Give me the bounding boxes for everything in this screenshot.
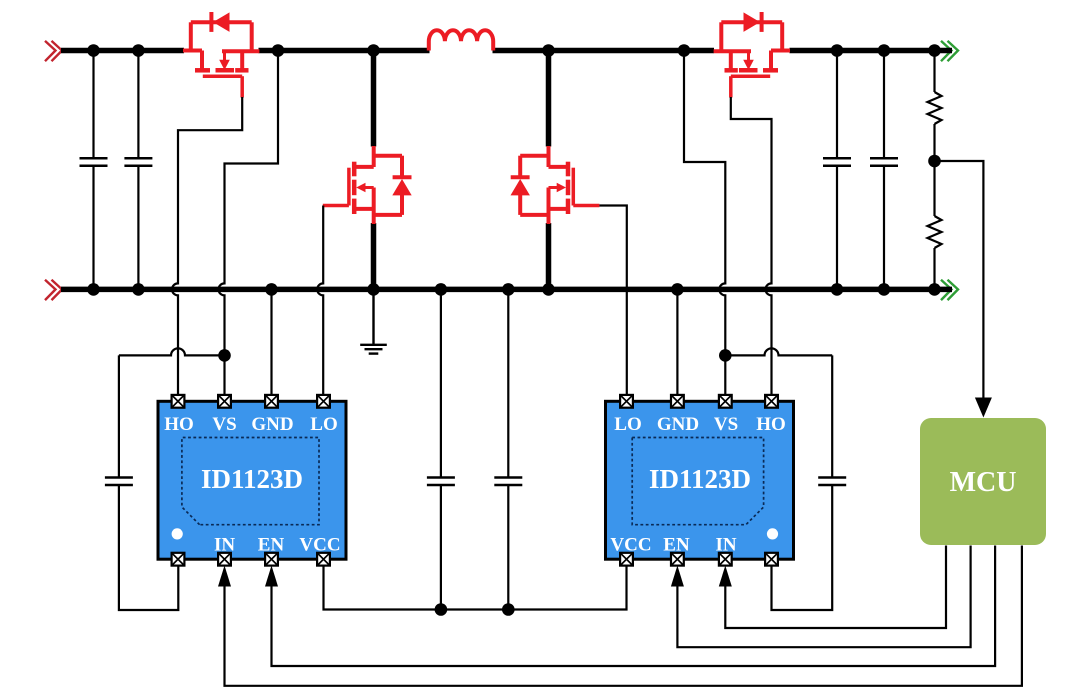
wire EN right bus	[677, 546, 970, 648]
junction VCC bus x440.9	[435, 603, 448, 616]
wire GND right	[676, 289, 678, 395]
inductor L1	[429, 30, 493, 50]
junction bottom rail x508.3	[502, 283, 515, 296]
junction bottom rail x440.9	[435, 283, 448, 296]
IC U1 pins	[172, 395, 185, 408]
capacitor C1	[80, 158, 108, 166]
IC U2 inner dashed outline	[632, 438, 763, 525]
arrow IN right	[719, 566, 732, 587]
wire VCC bus	[324, 565, 627, 610]
bottom rail	[61, 287, 952, 293]
top rail segment 1	[61, 48, 184, 54]
svg-text:VS: VS	[714, 414, 738, 435]
wire IN left bus	[225, 546, 1022, 686]
wire Cin1 column	[92, 51, 94, 290]
junction feedback tap	[928, 155, 941, 168]
wire divider bottom	[933, 248, 935, 289]
IC U1 inner dashed outline	[182, 438, 319, 525]
IC U1 pin1 white dot	[172, 528, 183, 539]
wire HO right	[731, 97, 772, 395]
wire bootstrap cap left column	[119, 355, 178, 610]
IC U2 body	[606, 401, 794, 559]
junction top rail x93.5	[87, 44, 100, 57]
output chevron bottom-right	[941, 280, 958, 300]
phase leg A lower thick wire	[371, 223, 377, 289]
capacitor C4	[870, 158, 898, 166]
junction top rail x138.4	[132, 44, 145, 57]
svg-text:LO: LO	[614, 414, 641, 435]
wire HO left	[172, 97, 242, 395]
junction top rail x684	[678, 44, 691, 57]
wire IN right bus	[725, 546, 946, 629]
capacitor C7 vcc right	[494, 478, 522, 486]
IC U2 pins	[620, 395, 633, 408]
wire divider top	[933, 51, 935, 93]
wire feedback tap to MCU	[935, 161, 984, 399]
wire bootstrap cap right column	[772, 355, 833, 610]
resistor R2	[928, 216, 942, 248]
junction bottom rail x884	[878, 283, 891, 296]
capacitor C2	[124, 158, 152, 166]
transistor Q3 low-side left mosfet	[323, 146, 412, 224]
capacitor C6 vcc left	[427, 478, 455, 486]
top rail segment 2	[259, 48, 430, 54]
junction bottom rail x373.5	[367, 283, 380, 296]
IC U1 body	[158, 401, 346, 559]
IC U2 pin1 white dot	[767, 528, 778, 539]
junction bottom rail x138.4	[132, 283, 145, 296]
arrow EN right	[671, 566, 684, 587]
wire LO left	[317, 206, 323, 396]
wire GND left	[270, 289, 272, 395]
arrow IN left	[218, 566, 231, 587]
wire EN left bus	[272, 546, 996, 667]
arrow EN left	[265, 566, 278, 587]
junction bottom rail x837	[831, 283, 844, 296]
transistor Q2 high-side right mosfet	[714, 12, 790, 98]
wire Cin2 column	[137, 51, 139, 290]
wire bootstrap cap left top	[119, 348, 225, 355]
wire Cvcc2 column	[507, 289, 509, 609]
junction top rail x837	[831, 44, 844, 57]
svg-text:MCU: MCU	[950, 467, 1017, 498]
wire VS right	[684, 51, 725, 396]
junction VCC bus x508.3	[502, 603, 515, 616]
svg-text:ID1123D: ID1123D	[649, 464, 751, 494]
junction VS node right	[719, 349, 732, 362]
junction top rail x884	[878, 44, 891, 57]
junction top rail x548.5	[542, 44, 555, 57]
wire Cout2 column	[883, 51, 885, 290]
MCU U3 body	[920, 418, 1046, 545]
svg-text:GND: GND	[657, 414, 699, 435]
phase leg B lower thick wire	[546, 223, 552, 289]
transistor Q1 high-side left mosfet	[183, 12, 259, 98]
wire Cout1 column	[836, 51, 838, 290]
phase leg A upper thick wire	[371, 51, 377, 147]
junction bottom rail x271.5	[265, 283, 278, 296]
top rail segment 4	[790, 48, 953, 54]
junction top rail x373.5	[367, 44, 380, 57]
junction bottom rail x93.5	[87, 283, 100, 296]
svg-text:ID1123D: ID1123D	[201, 464, 303, 494]
wire Cvcc1 column	[440, 289, 442, 609]
wire VS left	[219, 51, 279, 396]
svg-text:HO: HO	[756, 414, 786, 435]
input chevron bottom-left	[45, 280, 62, 300]
capacitor C8 bootstrap right	[818, 478, 846, 486]
junction bottom rail x548.5	[542, 283, 555, 296]
junction bottom rail x934.5	[928, 283, 941, 296]
wire bootstrap cap right top	[725, 348, 832, 355]
transistor Q4 low-side right mosfet	[511, 146, 600, 224]
wire divider middle	[933, 124, 935, 216]
ground	[360, 289, 387, 353]
phase leg B upper thick wire	[546, 51, 552, 147]
svg-text:GND: GND	[251, 414, 293, 435]
top rail segment 3	[493, 48, 715, 54]
svg-text:LO: LO	[310, 414, 337, 435]
junction top rail x278	[272, 44, 285, 57]
output chevron top-right	[941, 41, 958, 61]
wire LO right	[599, 206, 626, 396]
junction top rail x934.5	[928, 44, 941, 57]
input chevron top-left	[45, 41, 62, 61]
svg-text:HO: HO	[164, 414, 194, 435]
arrow into MCU	[975, 398, 992, 418]
svg-text:VS: VS	[212, 414, 236, 435]
capacitor C3	[823, 158, 851, 166]
junction bottom rail x677.4	[671, 283, 684, 296]
capacitor C5 bootstrap left	[105, 478, 133, 486]
resistor R1	[928, 92, 942, 124]
junction VS node left	[218, 349, 231, 362]
